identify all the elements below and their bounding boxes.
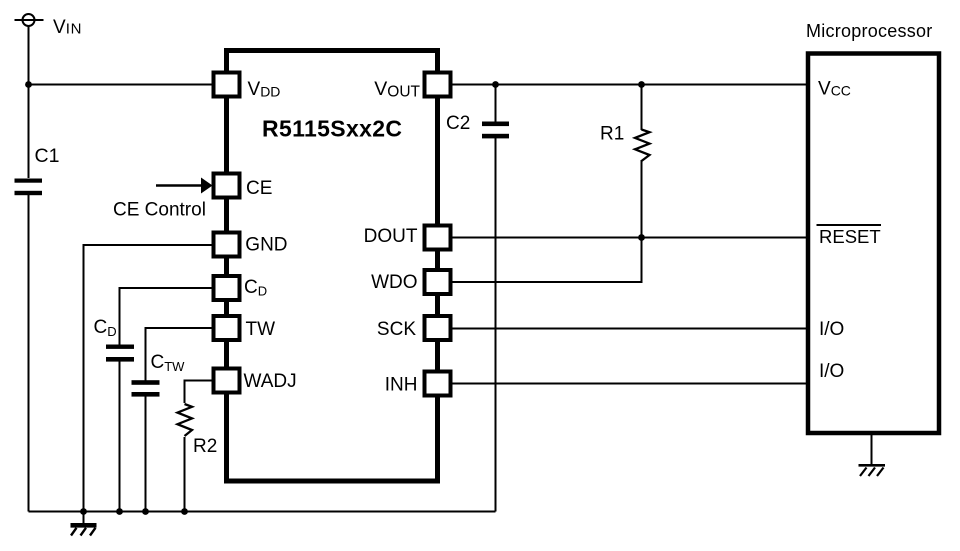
svg-text:GND: GND bbox=[245, 235, 287, 256]
wire C2 stem bbox=[495, 85, 497, 123]
pin INH bbox=[425, 372, 451, 396]
svg-text:CE Control: CE Control bbox=[113, 200, 206, 221]
wire SCK to I/O bbox=[451, 328, 806, 330]
resistor R2 bbox=[178, 404, 193, 436]
pin WDO bbox=[425, 270, 451, 294]
svg-text:C2: C2 bbox=[446, 113, 470, 134]
wire WADJ pin to resistor R2 bbox=[185, 381, 214, 404]
pin VOUT bbox=[425, 73, 451, 97]
pin TW bbox=[214, 316, 240, 340]
svg-text:C1: C1 bbox=[35, 145, 60, 167]
node CD junction bbox=[116, 508, 123, 515]
pin GND bbox=[214, 233, 240, 257]
pin CE bbox=[214, 174, 240, 198]
wire VIN down to C1 bbox=[28, 26, 30, 178]
wire C2 to ground bus bbox=[495, 138, 497, 512]
svg-text:DOUT: DOUT bbox=[364, 226, 418, 247]
svg-text:RESET: RESET bbox=[819, 226, 881, 247]
node DOUT/R1/WDO junction bbox=[638, 234, 645, 241]
IC U1 R5115Sxx2C body bbox=[227, 51, 438, 482]
wire R1 top bbox=[641, 85, 643, 131]
wire GND pin to ground bus bbox=[84, 245, 214, 512]
node VIN/VDD junction bbox=[25, 81, 32, 88]
wire CD pin to capacitor CD bbox=[120, 288, 214, 345]
wire capacitor CD to ground bus bbox=[119, 361, 121, 512]
svg-text:CE: CE bbox=[246, 178, 272, 199]
wire resistor R2 to ground bus bbox=[184, 437, 186, 512]
wire R1 bottom to DOUT wire bbox=[641, 160, 643, 238]
pin CD bbox=[214, 276, 240, 300]
wire C1 to ground bus bbox=[28, 195, 30, 512]
wire WDO to junction bbox=[451, 238, 642, 283]
svg-text:Microprocessor: Microprocessor bbox=[806, 21, 933, 41]
node CTW junction bbox=[142, 508, 149, 515]
svg-text:VCC: VCC bbox=[818, 79, 851, 100]
svg-text:R5115Sxx2C: R5115Sxx2C bbox=[262, 116, 402, 142]
wire VOUT to microprocessor VCC bbox=[451, 84, 806, 86]
svg-text:SCK: SCK bbox=[377, 319, 416, 340]
node C2 junction bbox=[492, 81, 499, 88]
svg-text:R2: R2 bbox=[193, 436, 217, 457]
pin VDD bbox=[214, 73, 240, 97]
capacitor C1 bbox=[15, 179, 43, 196]
wire TW pin to capacitor CTW bbox=[146, 328, 214, 381]
wire capacitor CTW to ground bus bbox=[145, 396, 147, 512]
capacitor CD bbox=[106, 345, 134, 362]
node GND junction bbox=[80, 508, 87, 515]
svg-text:INH: INH bbox=[385, 375, 418, 396]
pin DOUT bbox=[425, 226, 451, 250]
resistor R1 bbox=[635, 130, 650, 162]
ground symbol (main) bbox=[71, 512, 97, 536]
svg-text:WDO: WDO bbox=[371, 272, 417, 293]
wire VIN to VDD pin bbox=[29, 84, 214, 86]
node R1 junction bbox=[638, 81, 645, 88]
terminal VIN bbox=[15, 14, 44, 26]
microprocessor ground stub bbox=[871, 435, 873, 465]
pin SCK bbox=[425, 316, 451, 340]
svg-text:TW: TW bbox=[246, 319, 276, 340]
ground symbol (microprocessor) bbox=[859, 465, 886, 476]
pin WADJ bbox=[214, 369, 240, 393]
RESET overline bbox=[817, 224, 882, 226]
svg-text:I/O: I/O bbox=[819, 319, 844, 340]
node R2 junction bbox=[181, 508, 188, 515]
capacitor CTW bbox=[132, 380, 160, 396]
ground bus wire bbox=[29, 511, 496, 513]
wire INH to I/O bbox=[451, 383, 806, 385]
CE control arrow bbox=[156, 178, 213, 194]
wire DOUT to RESET bbox=[451, 237, 806, 239]
svg-text:WADJ: WADJ bbox=[244, 371, 297, 392]
svg-text:VIN: VIN bbox=[53, 17, 82, 38]
microprocessor box bbox=[808, 54, 939, 434]
svg-text:R1: R1 bbox=[600, 124, 624, 145]
svg-text:I/O: I/O bbox=[819, 361, 844, 382]
capacitor C2 bbox=[482, 122, 509, 139]
